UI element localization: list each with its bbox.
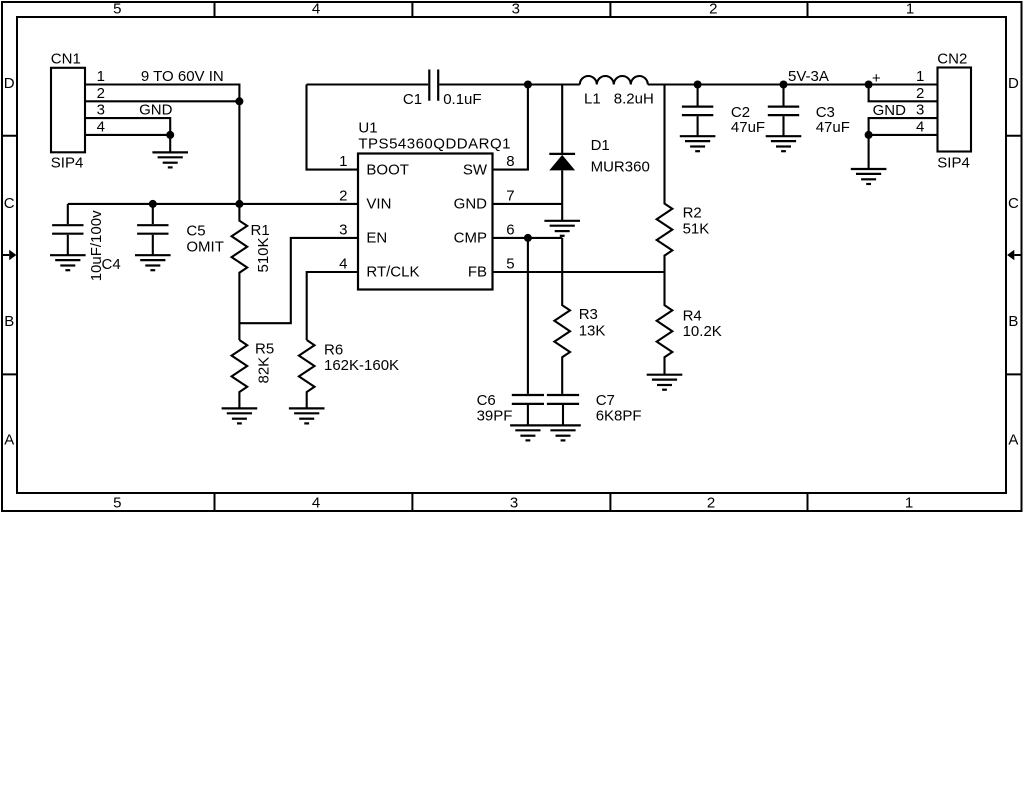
svg-text:1: 1 [97, 68, 105, 85]
svg-text:SIP4: SIP4 [51, 155, 84, 172]
svg-text:2: 2 [916, 85, 924, 102]
junction dot pins1-2 [235, 97, 243, 105]
wire BOOT pin1 [307, 85, 359, 170]
svg-text:R3: R3 [579, 306, 598, 323]
svg-text:3: 3 [916, 102, 924, 119]
svg-text:5: 5 [113, 494, 121, 511]
svg-text:6K8PF: 6K8PF [596, 407, 642, 424]
svg-text:SW: SW [463, 161, 488, 178]
svg-text:BOOT: BOOT [366, 161, 409, 178]
op IC U1 TPS54360 [358, 120, 511, 290]
CN2 pin numbers [916, 68, 924, 135]
svg-text:39PF: 39PF [477, 407, 513, 424]
junction dot CMP [524, 234, 532, 242]
svg-text:VIN: VIN [366, 196, 391, 213]
ground R6 [289, 408, 325, 423]
ground C7 [545, 425, 581, 440]
ground C2 [680, 136, 716, 151]
inductor L1 [580, 76, 654, 107]
svg-text:R4: R4 [683, 307, 702, 324]
svg-text:4: 4 [97, 118, 105, 135]
svg-text:D: D [4, 75, 15, 92]
svg-text:47uF: 47uF [731, 119, 765, 136]
svg-text:+: + [872, 70, 881, 87]
svg-text:FB: FB [468, 264, 487, 281]
svg-text:5V-3A: 5V-3A [788, 68, 829, 85]
wire CN1 pin2 [84, 100, 239, 102]
svg-text:L1: L1 [584, 90, 601, 107]
wire CN2 pin4 [869, 134, 938, 136]
svg-text:R5: R5 [255, 341, 274, 358]
svg-text:MUR360: MUR360 [591, 159, 650, 176]
svg-text:GND: GND [454, 196, 488, 213]
wire L1 to CN2 output net [648, 83, 938, 85]
capacitor C3 [768, 85, 850, 137]
wire CN1 pin1 to junction [84, 85, 239, 102]
junction dot pin4 gnd [166, 131, 174, 139]
svg-text:C7: C7 [596, 392, 615, 409]
capacitor C4 [52, 204, 121, 281]
capacitor C7 [547, 392, 642, 426]
svg-text:13K: 13K [579, 323, 606, 340]
wire RT/CLK pin4 [307, 272, 358, 340]
svg-text:3: 3 [339, 221, 347, 238]
resistor R1 [232, 204, 272, 340]
ground C3 [766, 136, 802, 151]
svg-text:R6: R6 [324, 342, 343, 359]
capacitor C2 [682, 85, 765, 137]
ground C5 [135, 255, 171, 270]
svg-text:510K: 510K [255, 237, 272, 272]
wire FB pin5 [493, 271, 665, 273]
svg-text:1: 1 [906, 0, 914, 17]
svg-text:1: 1 [339, 153, 347, 170]
wire SW pin8 [493, 85, 528, 170]
right row labels [1008, 75, 1019, 449]
svg-text:TPS54360QDDARQ1: TPS54360QDDARQ1 [358, 135, 511, 152]
svg-text:D: D [1008, 75, 1019, 92]
svg-text:4: 4 [339, 256, 347, 273]
svg-text:4: 4 [916, 118, 924, 135]
border frame outer rect [2, 2, 1022, 511]
ground CN1 [152, 152, 188, 167]
svg-text:82K: 82K [256, 357, 273, 384]
svg-text:C4: C4 [102, 256, 121, 273]
ground R5 [222, 408, 258, 423]
connector CN1 [51, 51, 85, 172]
svg-text:10.2K: 10.2K [683, 323, 722, 340]
svg-text:SIP4: SIP4 [937, 155, 970, 172]
resistor R2 [657, 85, 710, 273]
wire C1 left [307, 83, 429, 85]
CN1 pin numbers [97, 68, 105, 135]
ground C6 [510, 425, 546, 440]
svg-text:3: 3 [97, 102, 105, 119]
connector CN2 [937, 51, 971, 172]
wire C1 right to L1 [439, 83, 580, 85]
svg-text:GND: GND [139, 102, 173, 119]
junction dot CN2 pin4 [865, 131, 873, 139]
bottom zone labels [113, 494, 913, 511]
svg-text:4: 4 [312, 494, 320, 511]
svg-text:47uF: 47uF [816, 119, 850, 136]
svg-text:C1: C1 [403, 91, 422, 108]
svg-text:OMIT: OMIT [186, 238, 224, 255]
svg-text:GND: GND [873, 102, 907, 119]
left row labels [4, 75, 15, 449]
svg-text:A: A [4, 432, 14, 449]
svg-text:C: C [1008, 195, 1019, 212]
wire CMP to C6 [527, 238, 529, 394]
svg-text:A: A [1008, 432, 1018, 449]
svg-text:1: 1 [905, 494, 913, 511]
capacitor C1 [403, 70, 482, 109]
left border arrow [2, 250, 16, 261]
junction dot SW node [524, 81, 532, 89]
svg-text:8.2uH: 8.2uH [614, 90, 654, 107]
ground C4 [50, 255, 86, 270]
svg-text:5: 5 [506, 256, 514, 273]
wire junction down to VIN node [238, 101, 240, 204]
resistor R6 [299, 340, 399, 408]
junction dot C5 [149, 200, 157, 208]
bottom column ticks [215, 493, 808, 511]
svg-text:D1: D1 [591, 137, 610, 154]
svg-text:B: B [4, 313, 14, 330]
svg-text:CMP: CMP [454, 230, 487, 247]
svg-text:2: 2 [97, 85, 105, 102]
capacitor C5 [137, 204, 224, 256]
svg-text:B: B [1008, 313, 1018, 330]
svg-text:4: 4 [312, 0, 320, 17]
wire CN2 pin3 [869, 118, 938, 135]
svg-text:C6: C6 [477, 392, 496, 409]
wire CN1 pin4 [84, 134, 170, 136]
top column ticks [215, 2, 808, 17]
wire CN2 pin2 [869, 85, 938, 102]
svg-text:R2: R2 [683, 205, 702, 222]
ground CN2 [851, 169, 887, 184]
wire VIN net [68, 203, 358, 205]
junction dot C3 [780, 81, 788, 89]
svg-text:R1: R1 [251, 222, 270, 239]
svg-text:2: 2 [707, 494, 715, 511]
svg-text:CN2: CN2 [937, 51, 967, 68]
U1 left pin numbers [339, 153, 347, 272]
svg-text:2: 2 [339, 187, 347, 204]
wire GND pin7 [493, 203, 563, 205]
wire CN2 gnd [868, 135, 870, 169]
svg-text:6: 6 [506, 221, 514, 238]
resistor R3 [554, 238, 605, 394]
right row ticks [1006, 136, 1022, 375]
svg-text:3: 3 [512, 0, 520, 17]
resistor R5 [232, 340, 275, 408]
diode D1 MUR360 [549, 85, 649, 221]
left row ticks [2, 136, 17, 375]
wire CMP pin6 [493, 237, 563, 239]
svg-text:1: 1 [916, 68, 924, 85]
svg-text:7: 7 [506, 187, 514, 204]
svg-text:U1: U1 [358, 120, 377, 137]
svg-text:51K: 51K [683, 220, 710, 237]
junction dot R1 [235, 200, 243, 208]
border frame inner rect [17, 17, 1006, 493]
svg-text:C: C [4, 195, 15, 212]
wire EN pin3 [239, 238, 358, 323]
svg-text:EN: EN [366, 230, 387, 247]
top zone labels [113, 0, 914, 17]
junction dot C2 [694, 81, 702, 89]
svg-text:5: 5 [113, 0, 121, 17]
U1 right pin numbers [506, 153, 514, 272]
svg-text:0.1uF: 0.1uF [443, 91, 481, 108]
svg-text:162K-160K: 162K-160K [324, 357, 399, 374]
svg-text:C5: C5 [186, 223, 205, 240]
wire pin4 to ground [169, 135, 171, 153]
resistor R4 [657, 272, 722, 375]
svg-text:2: 2 [709, 0, 717, 17]
wire CN1 pin3 [84, 118, 170, 135]
svg-text:3: 3 [510, 494, 518, 511]
ground R4 [647, 375, 683, 390]
svg-text:9 TO 60V IN: 9 TO 60V IN [141, 68, 224, 85]
junction dot CN2 feed [865, 81, 873, 89]
capacitor C6 [477, 392, 544, 426]
svg-text:CN1: CN1 [51, 51, 81, 68]
svg-text:8: 8 [506, 153, 514, 170]
right border arrow [1007, 250, 1021, 261]
svg-text:RT/CLK: RT/CLK [366, 264, 419, 281]
ground D1 [544, 221, 580, 236]
